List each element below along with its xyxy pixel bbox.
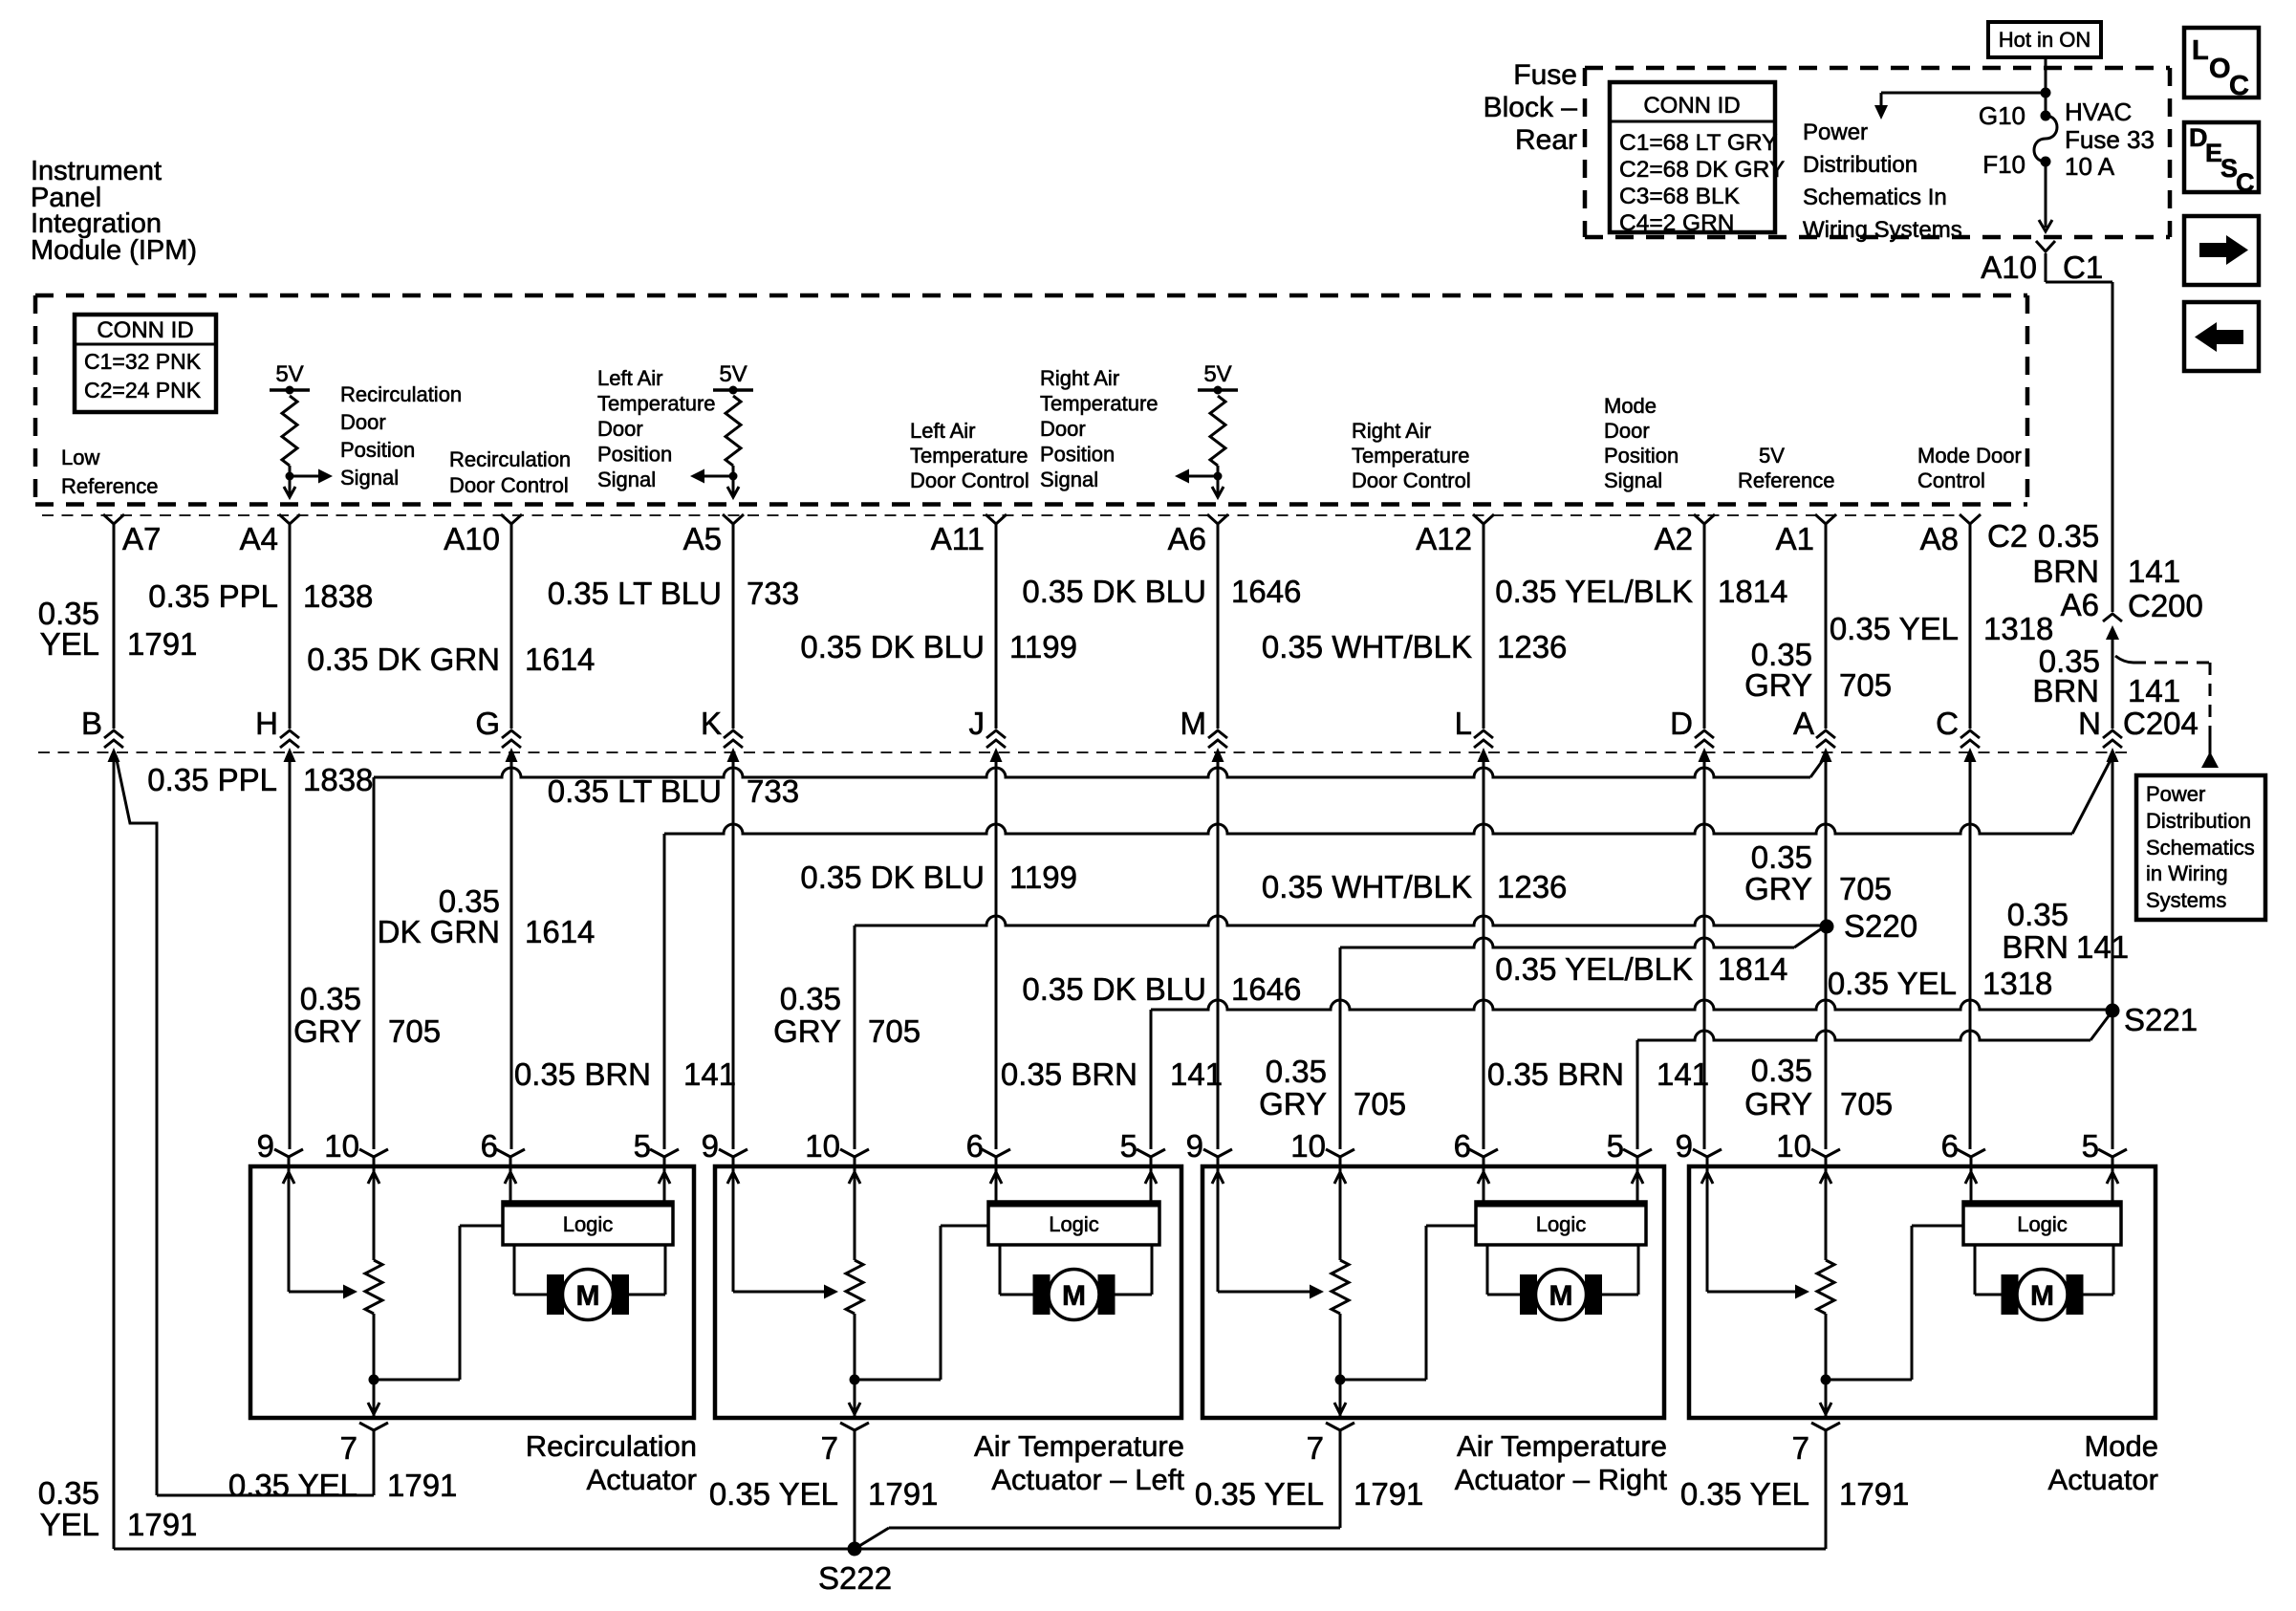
svg-text:C4=2 GRN: C4=2 GRN — [1619, 210, 1735, 236]
svg-text:GRY: GRY — [1259, 1086, 1327, 1121]
svg-text:Temperature: Temperature — [1040, 392, 1159, 416]
svg-text:10: 10 — [1776, 1128, 1811, 1164]
svg-text:Fuse: Fuse — [1513, 59, 1577, 91]
svg-text:0.35: 0.35 — [38, 1475, 99, 1511]
svg-text:1646: 1646 — [1231, 971, 1301, 1007]
svg-text:A2: A2 — [1655, 521, 1693, 556]
svg-text:Actuator – Right: Actuator – Right — [1455, 1463, 1668, 1496]
svg-text:C1: C1 — [2063, 250, 2103, 285]
svg-text:C1=68 LT GRY: C1=68 LT GRY — [1619, 130, 1777, 156]
svg-text:A8: A8 — [1920, 521, 1959, 556]
svg-text:S220: S220 — [1844, 908, 1917, 944]
svg-text:10: 10 — [1290, 1128, 1326, 1164]
svg-text:Low: Low — [61, 446, 99, 469]
svg-text:in Wiring: in Wiring — [2146, 861, 2228, 885]
svg-text:141: 141 — [683, 1056, 736, 1092]
svg-text:0.35 YEL: 0.35 YEL — [709, 1476, 838, 1512]
svg-text:0.35 YEL/BLK: 0.35 YEL/BLK — [1495, 951, 1693, 987]
svg-text:A11: A11 — [931, 521, 985, 556]
svg-text:5: 5 — [1607, 1128, 1624, 1164]
svg-text:1838: 1838 — [303, 762, 373, 797]
svg-text:Door: Door — [1604, 419, 1650, 443]
svg-text:0.35 BRN: 0.35 BRN — [1001, 1056, 1137, 1092]
svg-text:Air Temperature: Air Temperature — [974, 1429, 1184, 1463]
svg-text:L: L — [1455, 706, 1472, 741]
svg-text:C2=24 PNK: C2=24 PNK — [84, 378, 202, 403]
svg-text:K: K — [701, 706, 722, 741]
svg-text:C200: C200 — [2128, 588, 2203, 623]
svg-text:BRN: BRN — [2032, 673, 2099, 708]
svg-text:141: 141 — [2128, 554, 2180, 589]
svg-text:Door Control: Door Control — [910, 468, 1029, 492]
svg-text:Mode Door: Mode Door — [1917, 444, 2022, 468]
svg-text:9: 9 — [1676, 1128, 1693, 1164]
svg-text:A12: A12 — [1416, 521, 1472, 556]
svg-text:1646: 1646 — [1231, 574, 1301, 609]
svg-text:Door Control: Door Control — [1352, 468, 1471, 492]
svg-text:A1: A1 — [1776, 521, 1814, 556]
svg-text:0.35 DK BLU: 0.35 DK BLU — [1022, 971, 1206, 1007]
svg-text:Right Air: Right Air — [1352, 419, 1431, 443]
svg-text:1791: 1791 — [1354, 1476, 1423, 1512]
svg-text:0.35 DK BLU: 0.35 DK BLU — [800, 629, 985, 664]
svg-text:Mode: Mode — [1604, 394, 1657, 418]
svg-text:Position: Position — [1604, 444, 1679, 468]
svg-text:733: 733 — [747, 773, 799, 809]
svg-text:0.35: 0.35 — [1266, 1054, 1327, 1089]
svg-text:1791: 1791 — [1839, 1476, 1909, 1512]
svg-text:A5: A5 — [683, 521, 722, 556]
svg-text:Mode: Mode — [2084, 1429, 2158, 1463]
svg-text:Systems: Systems — [2146, 888, 2226, 912]
svg-text:Signal: Signal — [597, 468, 656, 491]
svg-text:Recirculation: Recirculation — [526, 1429, 697, 1463]
svg-text:Logic: Logic — [1049, 1212, 1099, 1236]
svg-text:0.35 YEL: 0.35 YEL — [228, 1468, 357, 1503]
svg-text:Distribution: Distribution — [2146, 809, 2251, 833]
svg-text:5V: 5V — [719, 361, 747, 387]
svg-text:Distribution: Distribution — [1803, 152, 1917, 178]
svg-text:0.35: 0.35 — [1751, 839, 1812, 875]
svg-text:GRY: GRY — [293, 1013, 361, 1049]
svg-text:Door: Door — [340, 410, 386, 434]
svg-text:GRY: GRY — [1744, 1086, 1812, 1121]
svg-text:DK GRN: DK GRN — [378, 914, 500, 949]
svg-text:C: C — [2236, 168, 2255, 197]
svg-text:Actuator: Actuator — [2048, 1463, 2158, 1496]
svg-text:Schematics: Schematics — [2146, 836, 2255, 860]
svg-text:Position: Position — [597, 443, 672, 467]
svg-text:0.35 BRN: 0.35 BRN — [1487, 1056, 1624, 1092]
svg-text:1614: 1614 — [525, 642, 595, 677]
svg-text:6: 6 — [1941, 1128, 1959, 1164]
svg-text:A7: A7 — [122, 521, 161, 556]
svg-text:CONN ID: CONN ID — [97, 317, 193, 343]
svg-text:0.35 YEL: 0.35 YEL — [1680, 1476, 1809, 1512]
svg-text:0.35: 0.35 — [2007, 897, 2069, 932]
svg-text:0.35 BRN: 0.35 BRN — [514, 1056, 651, 1092]
svg-text:Logic: Logic — [2017, 1212, 2068, 1236]
svg-text:Signal: Signal — [1040, 468, 1098, 491]
svg-text:GRY: GRY — [1744, 667, 1812, 703]
svg-text:A10: A10 — [444, 521, 500, 556]
svg-text:J: J — [969, 706, 986, 741]
svg-text:A6: A6 — [2061, 587, 2099, 622]
svg-text:GRY: GRY — [1744, 871, 1812, 906]
svg-text:0.35: 0.35 — [780, 981, 841, 1016]
svg-text:0.35 WHT/BLK: 0.35 WHT/BLK — [1262, 629, 1472, 664]
svg-text:Power: Power — [2146, 782, 2205, 806]
svg-text:1791: 1791 — [868, 1476, 938, 1512]
svg-text:0.35 DK BLU: 0.35 DK BLU — [1022, 574, 1206, 609]
svg-text:1236: 1236 — [1497, 629, 1567, 664]
svg-text:705: 705 — [1839, 871, 1892, 906]
svg-text:Recirculation: Recirculation — [449, 447, 571, 471]
svg-text:H: H — [255, 706, 278, 741]
svg-text:0.35 PPL: 0.35 PPL — [148, 578, 278, 614]
svg-text:Actuator – Left: Actuator – Left — [991, 1463, 1184, 1496]
svg-text:Block –: Block – — [1484, 92, 1578, 123]
svg-text:Control: Control — [1917, 468, 1985, 492]
svg-text:Air Temperature: Air Temperature — [1457, 1429, 1667, 1463]
svg-text:L: L — [2192, 35, 2209, 66]
svg-text:GRY: GRY — [773, 1013, 841, 1049]
svg-text:A4: A4 — [240, 521, 278, 556]
svg-text:7: 7 — [821, 1430, 838, 1466]
svg-text:C1=32 PNK: C1=32 PNK — [84, 349, 202, 374]
svg-text:0.35 LT BLU: 0.35 LT BLU — [548, 773, 722, 809]
svg-text:M: M — [576, 1280, 600, 1312]
svg-text:141: 141 — [2076, 929, 2129, 965]
svg-text:Door: Door — [1040, 417, 1086, 441]
svg-text:F10: F10 — [1982, 150, 2025, 179]
svg-text:1814: 1814 — [1718, 574, 1787, 609]
svg-text:6: 6 — [1454, 1128, 1471, 1164]
svg-text:0.35: 0.35 — [2038, 518, 2099, 554]
svg-text:0.35: 0.35 — [1751, 1053, 1812, 1088]
svg-text:10: 10 — [324, 1128, 359, 1164]
svg-text:S221: S221 — [2124, 1002, 2198, 1037]
svg-text:Module (IPM): Module (IPM) — [31, 235, 197, 266]
svg-text:5V: 5V — [1203, 361, 1231, 387]
svg-text:5V: 5V — [275, 361, 303, 387]
svg-text:7: 7 — [1792, 1430, 1809, 1466]
svg-text:1791: 1791 — [387, 1468, 457, 1503]
svg-text:M: M — [1549, 1280, 1573, 1312]
svg-text:Door: Door — [597, 417, 643, 441]
svg-text:Actuator: Actuator — [587, 1463, 697, 1496]
svg-text:141: 141 — [1170, 1056, 1223, 1092]
svg-text:0.35 DK BLU: 0.35 DK BLU — [800, 860, 985, 895]
svg-text:Left Air: Left Air — [910, 419, 975, 443]
svg-text:0.35 YEL: 0.35 YEL — [1828, 966, 1957, 1001]
svg-text:G10: G10 — [1979, 101, 2025, 130]
svg-text:5V: 5V — [1759, 444, 1785, 468]
svg-text:Rear: Rear — [1515, 124, 1577, 156]
svg-text:141: 141 — [2128, 673, 2180, 708]
svg-text:O: O — [2209, 54, 2231, 84]
svg-text:0.35 PPL: 0.35 PPL — [147, 762, 277, 797]
svg-text:Logic: Logic — [563, 1212, 614, 1236]
svg-text:5: 5 — [2082, 1128, 2099, 1164]
svg-text:A: A — [1793, 706, 1814, 741]
svg-text:0.35: 0.35 — [300, 981, 361, 1016]
svg-text:M: M — [2030, 1280, 2054, 1312]
svg-text:C2=68 DK GRY: C2=68 DK GRY — [1619, 157, 1785, 183]
svg-text:Wiring Systems: Wiring Systems — [1803, 217, 1962, 243]
svg-text:C3=68 BLK: C3=68 BLK — [1619, 184, 1741, 209]
svg-text:1791: 1791 — [127, 1507, 197, 1542]
svg-text:1318: 1318 — [1983, 611, 2053, 646]
svg-text:C2: C2 — [1987, 518, 2027, 554]
svg-text:0.35 DK GRN: 0.35 DK GRN — [307, 642, 500, 677]
svg-text:5: 5 — [1120, 1128, 1137, 1164]
svg-text:Temperature: Temperature — [910, 444, 1029, 468]
svg-text:BRN: BRN — [2032, 554, 2099, 589]
svg-text:7: 7 — [340, 1430, 357, 1466]
svg-text:YEL: YEL — [40, 626, 99, 662]
svg-text:733: 733 — [747, 576, 799, 611]
svg-text:B: B — [81, 706, 102, 741]
svg-text:Right Air: Right Air — [1040, 366, 1119, 390]
svg-text:705: 705 — [1840, 1086, 1893, 1121]
svg-text:Signal: Signal — [340, 466, 399, 490]
svg-text:141: 141 — [1657, 1056, 1709, 1092]
svg-text:C: C — [2229, 71, 2249, 101]
svg-text:10: 10 — [805, 1128, 840, 1164]
svg-text:705: 705 — [1354, 1086, 1406, 1121]
svg-text:0.35 LT BLU: 0.35 LT BLU — [548, 576, 722, 611]
svg-text:BRN: BRN — [2002, 929, 2069, 965]
svg-text:Left Air: Left Air — [597, 366, 662, 390]
svg-text:Temperature: Temperature — [597, 392, 716, 416]
svg-text:C204: C204 — [2123, 706, 2199, 741]
svg-text:0.35 YEL: 0.35 YEL — [1195, 1476, 1324, 1512]
svg-text:7: 7 — [1307, 1430, 1324, 1466]
svg-text:6: 6 — [481, 1128, 498, 1164]
svg-text:A10: A10 — [1981, 250, 2037, 285]
svg-text:YEL: YEL — [40, 1507, 99, 1542]
svg-text:6: 6 — [966, 1128, 984, 1164]
svg-text:10 A: 10 A — [2065, 152, 2115, 181]
svg-text:705: 705 — [1839, 667, 1892, 703]
svg-text:Reference: Reference — [61, 474, 159, 498]
svg-text:0.35 WHT/BLK: 0.35 WHT/BLK — [1262, 869, 1472, 904]
svg-text:Power: Power — [1803, 120, 1868, 145]
svg-text:705: 705 — [868, 1013, 921, 1049]
svg-text:Hot in ON: Hot in ON — [1999, 28, 2091, 52]
svg-text:HVAC: HVAC — [2065, 98, 2132, 126]
svg-text:Door Control: Door Control — [449, 473, 569, 497]
svg-text:N: N — [2078, 706, 2101, 741]
svg-text:1791: 1791 — [127, 626, 197, 662]
svg-text:1838: 1838 — [303, 578, 373, 614]
svg-text:M: M — [1062, 1280, 1086, 1312]
svg-text:1199: 1199 — [1009, 860, 1077, 895]
svg-text:1199: 1199 — [1009, 629, 1077, 664]
svg-text:0.35 YEL/BLK: 0.35 YEL/BLK — [1495, 574, 1693, 609]
svg-text:S222: S222 — [818, 1560, 892, 1596]
svg-text:Signal: Signal — [1604, 468, 1662, 492]
svg-text:A6: A6 — [1168, 521, 1206, 556]
svg-text:Position: Position — [1040, 443, 1115, 467]
svg-text:1614: 1614 — [525, 914, 595, 949]
svg-text:Reference: Reference — [1738, 468, 1835, 492]
svg-text:Fuse 33: Fuse 33 — [2065, 125, 2155, 154]
svg-text:0.35 YEL: 0.35 YEL — [1830, 611, 1959, 646]
svg-text:1236: 1236 — [1497, 869, 1567, 904]
svg-text:9: 9 — [702, 1128, 719, 1164]
svg-text:M: M — [1180, 706, 1207, 741]
svg-text:1318: 1318 — [1982, 966, 2052, 1001]
svg-text:1814: 1814 — [1718, 951, 1787, 987]
svg-text:9: 9 — [257, 1128, 274, 1164]
svg-text:C: C — [1936, 706, 1959, 741]
svg-text:5: 5 — [634, 1128, 651, 1164]
svg-text:G: G — [475, 706, 500, 741]
svg-text:Temperature: Temperature — [1352, 444, 1470, 468]
svg-text:9: 9 — [1186, 1128, 1203, 1164]
svg-text:D: D — [1670, 706, 1693, 741]
svg-text:Logic: Logic — [1536, 1212, 1587, 1236]
svg-text:705: 705 — [388, 1013, 441, 1049]
svg-text:Position: Position — [340, 438, 415, 462]
svg-text:Recirculation: Recirculation — [340, 382, 462, 406]
svg-text:CONN ID: CONN ID — [1643, 93, 1740, 119]
svg-text:Schematics In: Schematics In — [1803, 185, 1947, 210]
